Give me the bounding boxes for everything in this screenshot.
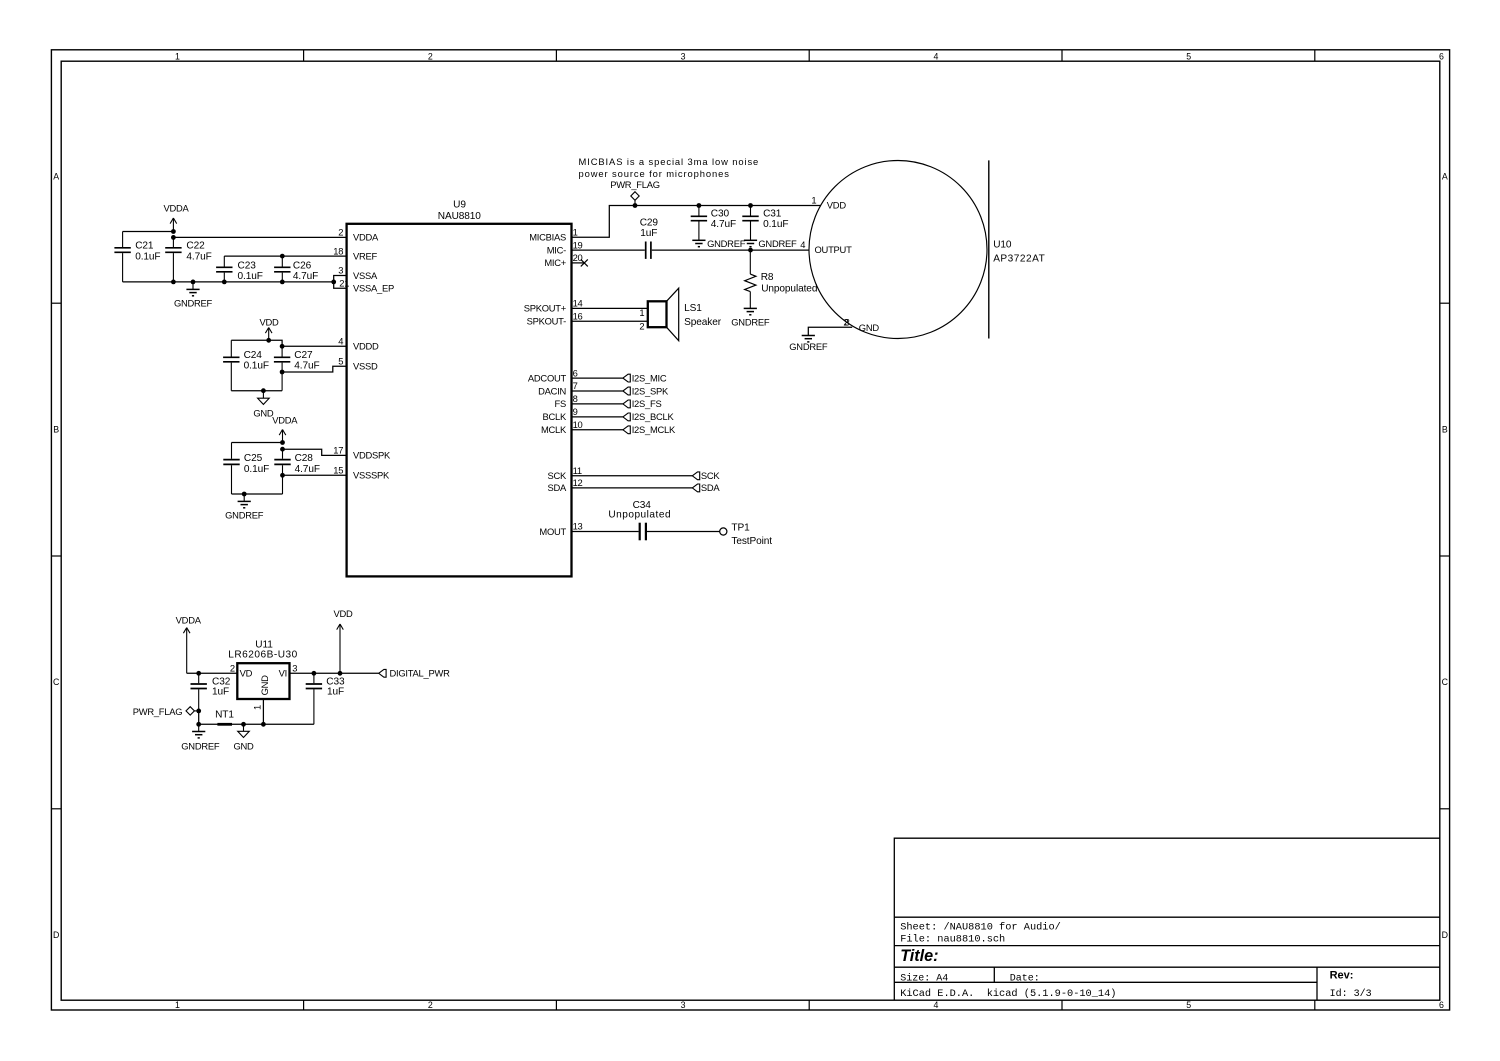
wire jog to pins 3/21 bbox=[334, 276, 347, 289]
svg-text:GND: GND bbox=[233, 740, 254, 751]
speaker LS1 body bbox=[648, 288, 679, 341]
wire C32 to rail bbox=[198, 711, 200, 724]
U9 pin 15 number bbox=[333, 465, 343, 476]
svg-text:GNDREF: GNDREF bbox=[181, 740, 220, 751]
svg-text:MOUT: MOUT bbox=[539, 526, 566, 537]
TP1 value label bbox=[731, 536, 772, 547]
svg-text:VSSD: VSSD bbox=[353, 361, 378, 372]
global label I2S_MIC bbox=[623, 372, 667, 383]
junction VDD tap bbox=[338, 671, 343, 676]
svg-text:MICBIAS: MICBIAS bbox=[529, 232, 566, 243]
svg-text:4: 4 bbox=[933, 52, 938, 62]
U9 pin 21 number bbox=[339, 278, 349, 289]
ground GND (U11) bbox=[233, 724, 254, 751]
wire U9 pin16 SPKOUT- to LS1 bbox=[572, 320, 648, 322]
svg-text:VREF: VREF bbox=[353, 250, 378, 261]
svg-text:C26: C26 bbox=[293, 260, 312, 271]
U9 pin 6 number bbox=[573, 367, 578, 378]
U9 pin 16 number bbox=[573, 310, 583, 321]
svg-text:1uF: 1uF bbox=[327, 687, 344, 698]
wire U9 pin1 MICBIAS to rail bbox=[572, 206, 821, 238]
svg-text:3: 3 bbox=[681, 52, 686, 62]
svg-text:1: 1 bbox=[175, 1000, 180, 1010]
svg-text:Rev:: Rev: bbox=[1330, 969, 1354, 981]
svg-text:0.1uF: 0.1uF bbox=[763, 219, 788, 230]
ground GNDREF (speaker block) bbox=[225, 494, 264, 520]
microphone U10 body bbox=[809, 160, 989, 338]
svg-text:18: 18 bbox=[333, 245, 343, 256]
ground GNDREF (C30) bbox=[692, 238, 745, 249]
ground GNDREF (C31) bbox=[744, 238, 797, 249]
capacitor C27 bbox=[274, 346, 320, 390]
svg-text:6: 6 bbox=[1439, 52, 1444, 62]
svg-text:BCLK: BCLK bbox=[543, 411, 567, 422]
wire U9 to I2S_FS bbox=[572, 403, 623, 405]
svg-text:2: 2 bbox=[639, 320, 644, 331]
svg-text:5: 5 bbox=[1186, 1000, 1191, 1010]
U9 pin 17 number bbox=[333, 445, 343, 456]
junction C22 bottom bbox=[171, 280, 176, 285]
svg-text:VDDA: VDDA bbox=[353, 232, 379, 243]
ground GND (digital) bbox=[253, 391, 274, 419]
svg-text:2: 2 bbox=[428, 52, 433, 62]
ground GNDREF (decoupling block 1) bbox=[174, 282, 213, 309]
U9 pin name FS bbox=[555, 398, 566, 409]
svg-text:NAU8810: NAU8810 bbox=[438, 211, 482, 222]
svg-text:MIC-: MIC- bbox=[547, 244, 566, 255]
junction at VDDA node bbox=[171, 229, 176, 234]
svg-text:FS: FS bbox=[555, 398, 566, 409]
global label I2S_FS bbox=[623, 398, 662, 409]
U11 pin name VI bbox=[279, 668, 287, 679]
U9 pin name VREF bbox=[353, 250, 378, 261]
U9 pin name MOUT bbox=[539, 526, 566, 537]
svg-text:C21: C21 bbox=[135, 240, 154, 251]
U9 pin name VDDSPK bbox=[353, 450, 391, 461]
wire jog to U9 pin 5 VSSD bbox=[282, 366, 347, 372]
svg-text:1: 1 bbox=[639, 307, 644, 318]
svg-text:DACIN: DACIN bbox=[538, 385, 566, 396]
U9 pin name DACIN bbox=[538, 385, 566, 396]
svg-text:TP1: TP1 bbox=[731, 522, 750, 533]
junction VDD node bbox=[266, 338, 271, 343]
svg-text:14: 14 bbox=[573, 298, 583, 309]
svg-text:8: 8 bbox=[573, 393, 578, 404]
junction C26 top bbox=[280, 254, 285, 259]
svg-text:6: 6 bbox=[1439, 1000, 1444, 1010]
svg-text:0.1uF: 0.1uF bbox=[244, 361, 269, 372]
junction VDDA spk node bbox=[280, 440, 285, 445]
U9 pin name VDDD bbox=[353, 341, 379, 352]
capacitor C21 bbox=[114, 232, 160, 282]
wire C34 to TP1 bbox=[647, 531, 720, 533]
svg-text:I2S_SPK: I2S_SPK bbox=[632, 385, 669, 396]
global label I2S_MCLK bbox=[623, 424, 676, 435]
title block id text bbox=[1330, 988, 1372, 1000]
junction GNDREF spk tap bbox=[242, 492, 247, 497]
U9 pin 8 number bbox=[573, 393, 578, 404]
svg-text:D: D bbox=[1442, 930, 1448, 940]
U9 pin 20 number bbox=[573, 252, 583, 263]
wire GNDREF rail bbox=[123, 281, 334, 283]
svg-text:C27: C27 bbox=[294, 350, 313, 361]
speaker LS1 pin 1 number bbox=[639, 307, 644, 318]
svg-text:4.7uF: 4.7uF bbox=[294, 361, 319, 372]
svg-text:1uF: 1uF bbox=[212, 687, 229, 698]
svg-text:ADCOUT: ADCOUT bbox=[528, 372, 567, 383]
junction GND (U11) bbox=[241, 722, 246, 727]
svg-text:U10: U10 bbox=[993, 240, 1012, 251]
wire C24-C27 bottom rail bbox=[231, 390, 282, 392]
capacitor C23 bbox=[216, 256, 263, 282]
U11 pin 1 number bbox=[251, 705, 262, 710]
no-connect X on U9 pin 20 bbox=[572, 259, 588, 266]
junction R8 top bbox=[748, 248, 753, 253]
junction PWR_FLAG (U11) bbox=[196, 709, 201, 714]
wire jog to U9 pin 17 VDDSPK bbox=[283, 449, 347, 455]
U9 pin name SPKOUT- bbox=[527, 316, 567, 327]
power symbol VDD (digital) bbox=[259, 316, 279, 340]
junction C28 top bbox=[280, 447, 285, 452]
svg-text:9: 9 bbox=[573, 406, 578, 417]
svg-text:1: 1 bbox=[175, 52, 180, 62]
U10 value label bbox=[993, 253, 1045, 264]
U9 pin 19 number bbox=[573, 239, 583, 250]
svg-text:VI: VI bbox=[279, 668, 287, 679]
svg-text:13: 13 bbox=[573, 521, 583, 532]
power symbol VDDA (top left) bbox=[163, 203, 189, 232]
capacitor C24 bbox=[223, 340, 269, 390]
U9 value label bbox=[438, 211, 482, 222]
svg-text:VDD: VDD bbox=[827, 199, 847, 210]
junction C30 top bbox=[697, 203, 702, 208]
svg-text:C25: C25 bbox=[244, 453, 263, 464]
U9 pin 13 number bbox=[573, 521, 583, 532]
speaker LS1 pin 2 number bbox=[639, 320, 644, 331]
junction at VDDA rail bbox=[171, 235, 176, 240]
capacitor C29 bbox=[640, 218, 659, 259]
U9 pin name SCK bbox=[547, 470, 567, 481]
svg-text:C28: C28 bbox=[295, 453, 314, 464]
junction pins 3/21 jog bbox=[331, 280, 336, 285]
svg-text:0.1uF: 0.1uF bbox=[244, 464, 269, 475]
wire U9 pin12 SDA bbox=[572, 487, 693, 489]
ground GNDREF (R8) bbox=[731, 308, 770, 327]
svg-text:C31: C31 bbox=[763, 208, 782, 219]
svg-text:C22: C22 bbox=[186, 240, 205, 251]
title block box bbox=[894, 838, 1440, 1000]
U9 pin 7 number bbox=[573, 380, 578, 391]
wire VDDA rail to U9 pin 2 bbox=[173, 236, 346, 238]
svg-text:NT1: NT1 bbox=[215, 709, 234, 720]
ground GNDREF (U10) bbox=[789, 336, 828, 352]
U9 pin name VSSA bbox=[353, 270, 378, 281]
svg-text:4: 4 bbox=[338, 336, 343, 347]
U10 reference label bbox=[993, 240, 1012, 251]
junction C23 bottom bbox=[222, 280, 227, 285]
svg-text:5: 5 bbox=[1186, 52, 1191, 62]
svg-text:VDDA: VDDA bbox=[272, 415, 298, 426]
svg-text:4.7uF: 4.7uF bbox=[186, 251, 211, 262]
title block kicad text bbox=[900, 988, 1116, 1000]
svg-text:VDDA: VDDA bbox=[176, 615, 202, 626]
svg-text:Date:: Date: bbox=[1010, 974, 1040, 985]
svg-text:1: 1 bbox=[811, 195, 816, 206]
svg-text:6: 6 bbox=[573, 367, 578, 378]
U11 pin name VD bbox=[240, 668, 253, 679]
svg-text:GND: GND bbox=[253, 407, 274, 418]
IC U9 body bbox=[347, 224, 572, 577]
wire U9 to I2S_MIC bbox=[572, 377, 623, 379]
svg-text:SDA: SDA bbox=[547, 482, 567, 493]
TP1 reference label bbox=[731, 522, 750, 533]
svg-text:GNDREF: GNDREF bbox=[758, 238, 797, 249]
junction GNDREF tap bbox=[191, 280, 196, 285]
svg-text:C30: C30 bbox=[711, 208, 730, 219]
svg-text:B: B bbox=[53, 424, 59, 434]
capacitor C30 bbox=[691, 206, 736, 241]
title block sheet text bbox=[900, 921, 1061, 933]
wire VREF rail to U9 pin 18 bbox=[224, 255, 346, 257]
svg-text:A: A bbox=[1442, 172, 1448, 182]
svg-text:2: 2 bbox=[338, 227, 343, 238]
svg-text:19: 19 bbox=[573, 239, 583, 250]
capacitor C22 bbox=[165, 237, 212, 282]
U10 pin 3 number (stacked) bbox=[845, 317, 850, 328]
capacitor C26 bbox=[274, 256, 318, 282]
power symbol VDD (U11) bbox=[333, 608, 353, 673]
U9 pin 4 number bbox=[338, 336, 343, 347]
U10 pin 4 number bbox=[800, 239, 805, 250]
svg-text:VDD: VDD bbox=[333, 608, 353, 619]
svg-text:1uF: 1uF bbox=[640, 228, 657, 239]
svg-text:GND: GND bbox=[859, 322, 880, 333]
svg-text:LS1: LS1 bbox=[684, 303, 702, 314]
junction C32 top bbox=[196, 671, 201, 676]
capacitor C28 bbox=[274, 449, 320, 494]
svg-text:VSSSPK: VSSSPK bbox=[353, 470, 390, 481]
U9 pin 5 number bbox=[338, 355, 343, 366]
svg-text:VDD: VDD bbox=[259, 316, 279, 327]
svg-text:1: 1 bbox=[573, 227, 578, 238]
svg-text:20: 20 bbox=[573, 252, 583, 263]
svg-text:C24: C24 bbox=[244, 350, 263, 361]
global label I2S_BCLK bbox=[623, 411, 675, 422]
U9 pin name MCLK bbox=[541, 424, 567, 435]
wire VDDA to U11 pin 2 bbox=[187, 672, 238, 674]
svg-text:GNDREF: GNDREF bbox=[707, 238, 746, 249]
U9 pin name BCLK bbox=[543, 411, 567, 422]
junction C31 top bbox=[748, 203, 753, 208]
IC U11 body bbox=[237, 663, 289, 699]
svg-text:15: 15 bbox=[333, 465, 343, 476]
U9 pin name SDA bbox=[547, 482, 567, 493]
U11 pin name GND bbox=[259, 675, 270, 696]
svg-text:Unpopulated: Unpopulated bbox=[761, 283, 817, 294]
junction U11 pin 1 bbox=[261, 722, 266, 727]
wire C29 to U10 pin 4 OUTPUT bbox=[652, 249, 809, 251]
svg-text:SCK: SCK bbox=[701, 470, 721, 481]
capacitor C31 bbox=[742, 206, 788, 241]
U9 pin 1 number bbox=[573, 227, 578, 238]
svg-text:VDDD: VDDD bbox=[353, 341, 379, 352]
svg-text:C: C bbox=[1442, 677, 1449, 687]
svg-text:Speaker: Speaker bbox=[684, 317, 722, 328]
U10 pin name OUTPUT bbox=[815, 244, 853, 255]
svg-text:VSSA_EP: VSSA_EP bbox=[353, 283, 394, 294]
capacitor C25 bbox=[223, 443, 269, 495]
power symbol VDDA (U11) bbox=[176, 615, 202, 674]
svg-text:I2S_FS: I2S_FS bbox=[632, 398, 662, 409]
U11 value label bbox=[228, 650, 297, 661]
title block title text bbox=[900, 947, 938, 965]
U11 reference label bbox=[255, 639, 273, 650]
svg-text:SDA: SDA bbox=[701, 482, 721, 493]
svg-text:MCLK: MCLK bbox=[541, 424, 567, 435]
U9 pin name MICBIAS bbox=[529, 232, 566, 243]
wire U9 pin14 SPKOUT+ to LS1 bbox=[572, 307, 648, 309]
U9 pin 12 number bbox=[573, 477, 583, 488]
svg-text:GNDREF: GNDREF bbox=[174, 298, 213, 309]
svg-text:1: 1 bbox=[251, 705, 262, 710]
global label I2S_SPK bbox=[623, 385, 669, 396]
capacitor C34 bbox=[608, 500, 671, 541]
svg-text:GND: GND bbox=[259, 675, 270, 696]
svg-text:GNDREF: GNDREF bbox=[731, 317, 770, 328]
svg-text:VD: VD bbox=[240, 668, 253, 679]
U9 pin name VDDA bbox=[353, 232, 379, 243]
svg-text:4.7uF: 4.7uF bbox=[295, 464, 320, 475]
wire to U9 pin 15 VSSSPK bbox=[283, 474, 347, 476]
U9 pin name VSSA_EP bbox=[353, 283, 394, 294]
wire C25-C28 bottom rail bbox=[232, 493, 283, 495]
U9 pin name ADCOUT bbox=[528, 372, 567, 383]
wire U9 to I2S_MCLK bbox=[572, 429, 623, 431]
svg-text:4.7uF: 4.7uF bbox=[293, 271, 318, 282]
svg-text:21: 21 bbox=[339, 278, 349, 289]
svg-text:DIGITAL_PWR: DIGITAL_PWR bbox=[390, 668, 451, 679]
svg-text:I2S_BCLK: I2S_BCLK bbox=[632, 411, 675, 422]
svg-text:Sheet: /NAU8810 for Audio/: Sheet: /NAU8810 for Audio/ bbox=[900, 921, 1061, 933]
title block rev text bbox=[1330, 969, 1354, 981]
svg-text:GNDREF: GNDREF bbox=[789, 341, 828, 352]
svg-text:TestPoint: TestPoint bbox=[731, 536, 772, 547]
note text MICBIAS bbox=[579, 156, 760, 179]
svg-text:PWR_FLAG: PWR_FLAG bbox=[133, 706, 183, 717]
junction PWR_FLAG bbox=[633, 203, 638, 208]
svg-text:KiCad E.D.A. kicad (5.1.9-0-1: KiCad E.D.A. kicad (5.1.9-0-10_14) bbox=[900, 988, 1116, 1000]
svg-text:3: 3 bbox=[292, 663, 297, 674]
svg-text:OUTPUT: OUTPUT bbox=[815, 244, 853, 255]
title block file text bbox=[900, 933, 1005, 945]
svg-text:B: B bbox=[1442, 424, 1448, 434]
svg-text:MICBIAS is a special 3ma low n: MICBIAS is a special 3ma low noise bbox=[579, 156, 760, 167]
svg-text:AP3722AT: AP3722AT bbox=[993, 253, 1045, 264]
svg-text:2: 2 bbox=[230, 663, 235, 674]
capacitor C33 bbox=[306, 673, 345, 724]
global label DIGITAL_PWR bbox=[379, 668, 450, 679]
svg-text:A: A bbox=[53, 172, 59, 182]
U9 pin 2 number bbox=[338, 227, 343, 238]
svg-text:4: 4 bbox=[933, 1000, 938, 1010]
svg-text:LR6206B-U30: LR6206B-U30 bbox=[228, 650, 297, 661]
svg-text:3: 3 bbox=[681, 1000, 686, 1010]
testpoint TP1 bbox=[720, 528, 727, 535]
svg-text:0.1uF: 0.1uF bbox=[238, 271, 263, 282]
junction C27 top bbox=[280, 344, 285, 349]
svg-text:C23: C23 bbox=[238, 260, 257, 271]
svg-text:C: C bbox=[53, 677, 60, 687]
U10 pin 1 number bbox=[811, 195, 816, 206]
U9 pin 14 number bbox=[573, 298, 583, 309]
U9 pin name MIC- bbox=[547, 244, 566, 255]
junction C26 bottom bbox=[280, 280, 285, 285]
U11 pin 1 stem bbox=[262, 699, 264, 724]
wire U10 GND pin to ground bbox=[808, 327, 852, 335]
wire U11 pin 3 to DIGITAL_PWR bbox=[290, 672, 379, 674]
wire U9 to I2S_BCLK bbox=[572, 416, 623, 418]
svg-text:I2S_MCLK: I2S_MCLK bbox=[632, 424, 676, 435]
svg-text:16: 16 bbox=[573, 310, 583, 321]
U9 pin name VSSSPK bbox=[353, 470, 390, 481]
wire C25-C28 top rail bbox=[232, 442, 283, 444]
svg-text:3: 3 bbox=[338, 265, 343, 276]
junction GNDREF (U11) bbox=[196, 722, 201, 727]
U10 pin name GND bbox=[859, 322, 880, 333]
svg-text:VSSA: VSSA bbox=[353, 270, 378, 281]
wire C24-C27 top rail bbox=[231, 340, 282, 346]
svg-text:I2S_MIC: I2S_MIC bbox=[632, 372, 667, 383]
U11 pin 2 number bbox=[230, 663, 235, 674]
U11 pin 3 number bbox=[292, 663, 297, 674]
svg-text:5: 5 bbox=[338, 355, 343, 366]
svg-text:MIC+: MIC+ bbox=[544, 257, 566, 268]
wire to U9 pin 4 VDDD bbox=[282, 345, 347, 347]
wire C21 top bbox=[123, 231, 174, 233]
U9 pin 9 number bbox=[573, 406, 578, 417]
junction GND tap bbox=[261, 388, 266, 393]
power flag PWR_FLAG (top) bbox=[610, 179, 660, 206]
svg-text:7: 7 bbox=[573, 380, 578, 391]
svg-text:4: 4 bbox=[800, 239, 805, 250]
svg-text:C29: C29 bbox=[640, 218, 659, 229]
U10 pin 2 number (stacked) bbox=[843, 317, 848, 328]
svg-text:GNDREF: GNDREF bbox=[225, 509, 264, 520]
title block date text bbox=[1010, 974, 1040, 985]
svg-text:11: 11 bbox=[573, 465, 582, 476]
svg-text:Unpopulated: Unpopulated bbox=[608, 510, 671, 521]
svg-text:3: 3 bbox=[845, 317, 850, 328]
svg-text:12: 12 bbox=[573, 477, 583, 488]
svg-text:VDDSPK: VDDSPK bbox=[353, 450, 391, 461]
svg-text:File: nau8810.sch: File: nau8810.sch bbox=[900, 933, 1005, 945]
svg-text:0.1uF: 0.1uF bbox=[135, 251, 160, 262]
power symbol VDDA (speaker block) bbox=[272, 415, 298, 443]
svg-text:power source for microphones: power source for microphones bbox=[579, 168, 730, 179]
net tie NT1 bbox=[215, 709, 234, 724]
junction C33 top bbox=[312, 671, 317, 676]
svg-text:17: 17 bbox=[333, 445, 343, 456]
LS1 value label bbox=[684, 317, 722, 328]
svg-text:R8: R8 bbox=[761, 272, 774, 283]
global label SDA bbox=[692, 482, 720, 493]
svg-text:10: 10 bbox=[573, 419, 583, 430]
U9 pin name SPKOUT+ bbox=[524, 303, 567, 314]
U9 pin name MIC+ bbox=[544, 257, 566, 268]
wire U11 ground rail bbox=[199, 723, 314, 725]
svg-text:PWR_FLAG: PWR_FLAG bbox=[610, 179, 660, 190]
LS1 reference label bbox=[684, 303, 702, 314]
